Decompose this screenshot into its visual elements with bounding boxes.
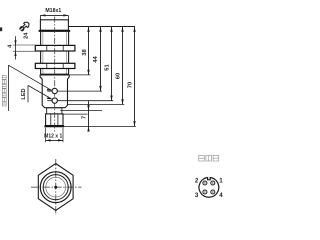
dimension 7 (connector) bbox=[88, 101, 90, 132]
svg-text:70: 70 bbox=[127, 82, 133, 88]
wrench icon (spanner size) bbox=[19, 21, 31, 32]
LED circle bbox=[52, 98, 57, 103]
svg-text:3: 3 bbox=[195, 192, 199, 199]
dimension 44 bbox=[100, 27, 102, 92]
connector label (CJK drawn as strokes) bbox=[199, 155, 219, 161]
dimension 38 bbox=[88, 27, 90, 75]
svg-text:24: 24 bbox=[24, 32, 30, 39]
connector end face (thick) bbox=[44, 125, 64, 127]
dimension M12x1 bbox=[45, 128, 47, 143]
dimension 51 bbox=[111, 27, 113, 101]
hex top edge extension line bbox=[61, 113, 88, 115]
hex nut N2 bbox=[35, 63, 75, 68]
svg-text:M12 x 1: M12 x 1 bbox=[44, 134, 62, 140]
dimension 4 (nut thickness) bbox=[13, 44, 35, 46]
svg-text:LED: LED bbox=[21, 88, 27, 99]
thread root inner lines bbox=[42, 32, 44, 75]
outer barrel circle bbox=[40, 172, 71, 203]
connector neck bbox=[47, 108, 62, 114]
third inner circle bbox=[46, 177, 66, 197]
thread end line bbox=[41, 73, 69, 75]
hex nut front view bbox=[38, 164, 73, 211]
thread shoulder (thick step line) bbox=[39, 30, 71, 32]
sensor body housing bbox=[40, 75, 69, 108]
hex nut N1 bbox=[35, 45, 75, 51]
svg-text:7: 7 bbox=[81, 116, 87, 119]
inner circle bbox=[43, 175, 68, 200]
pot circle (sensitivity adjuster) bbox=[52, 88, 57, 93]
dimension 70 bbox=[134, 27, 136, 127]
pin 2 (top-left) bbox=[203, 181, 207, 185]
svg-text:44: 44 bbox=[93, 56, 99, 63]
front view horizontal centerline bbox=[31, 186, 82, 188]
dimension M18x1 line bbox=[40, 14, 68, 16]
sensor tip (smooth front sleeve) bbox=[40, 20, 68, 31]
M12 connector face with keyway notch bbox=[199, 178, 219, 198]
dimension 60 bbox=[122, 27, 124, 105]
leader bracket for note bbox=[8, 65, 10, 111]
edge artifact mark bbox=[0, 27, 2, 31]
front view vertical centerline bbox=[55, 159, 57, 215]
svg-text:51: 51 bbox=[104, 64, 110, 71]
M12 hex section bbox=[46, 114, 63, 126]
reference line from thread start to dim lines bbox=[68, 26, 134, 28]
svg-text:4: 4 bbox=[219, 192, 223, 199]
LED leader bracket bbox=[27, 85, 29, 102]
pin 4 (bottom-right) bbox=[211, 190, 215, 194]
svg-text:60: 60 bbox=[116, 73, 122, 79]
pin 1 (top-right) bbox=[211, 181, 215, 185]
leader to pot bbox=[9, 65, 52, 90]
threaded barrel outer edges bbox=[40, 31, 42, 74]
leader to LED circle bbox=[28, 85, 52, 99]
svg-text:1: 1 bbox=[219, 178, 223, 185]
svg-text:M18x1: M18x1 bbox=[45, 8, 61, 14]
svg-text:38: 38 bbox=[82, 49, 88, 56]
wire: sensor vertical centerline bbox=[54, 17, 56, 132]
center dot bbox=[54, 186, 57, 189]
sensitivity adjust note (CJK drawn as strokes) bbox=[2, 75, 6, 106]
svg-text:2: 2 bbox=[195, 178, 199, 185]
pin 3 (bottom-left) bbox=[203, 190, 207, 194]
